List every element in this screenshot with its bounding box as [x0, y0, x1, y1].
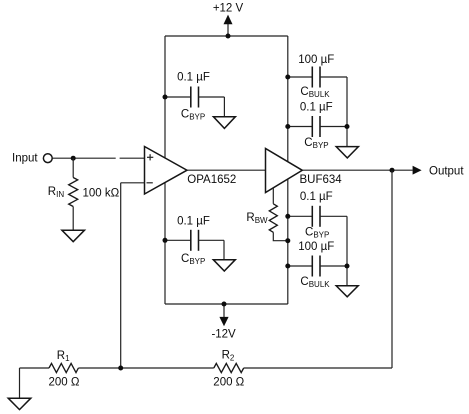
resistor R1 200 Ohm	[49, 363, 78, 372]
wire bottom feedback R2 right segment	[244, 367, 392, 369]
capacitor CBYP 0.1uF (OPA +12V bypass)	[165, 87, 224, 117]
svg-text:+12 V: +12 V	[213, 2, 244, 14]
wire top +12V rail	[165, 35, 288, 37]
svg-text:100 µF: 100 µF	[298, 241, 334, 253]
resistor RBW	[269, 188, 288, 241]
buffer U2 BUF634	[266, 149, 303, 193]
svg-text:100 µF: 100 µF	[298, 54, 334, 66]
wire OPA inverting input to feedback	[121, 182, 145, 184]
wire BUF top caps to ground	[346, 77, 348, 147]
wire OPA V+ supply vertical	[164, 36, 166, 183]
capacitor CBYP 0.1uF (OPA -12V bypass)	[165, 230, 224, 260]
node junction BUF V+ bulk tap	[285, 75, 290, 80]
ground OPA bottom bypass	[213, 260, 235, 271]
node junction BUF top ground bus	[345, 124, 350, 129]
node junction -12V tap	[222, 302, 227, 307]
svg-text:OPA1652: OPA1652	[187, 174, 236, 186]
svg-text:BUF634: BUF634	[300, 174, 343, 186]
node junction BUF V- bulk tap	[285, 264, 290, 269]
svg-text:0.1 µF: 0.1 µF	[300, 191, 333, 203]
node junction BUF V- bypass tap	[285, 214, 290, 219]
svg-text:0.1 µF: 0.1 µF	[177, 216, 210, 228]
svg-text:0.1 µF: 0.1 µF	[300, 102, 333, 114]
wire feedback vertical	[120, 183, 122, 368]
output arrow	[413, 166, 422, 175]
node junction BUF V+ bypass tap	[285, 124, 290, 129]
node junction OPA V- bypass tap	[163, 238, 168, 243]
power -12V supply arrow	[219, 304, 228, 326]
node junction +12V tap	[226, 34, 231, 39]
wire feedback from output down	[391, 170, 393, 368]
svg-text:200 Ω: 200 Ω	[49, 377, 80, 389]
ground R1	[8, 398, 31, 409]
node junction RBW to V-	[285, 238, 290, 243]
op-amp U1 OPA1652	[145, 147, 188, 195]
wire BUF output to output node	[302, 169, 412, 171]
node junction BUF bottom ground bus	[345, 264, 350, 269]
ground OPA top bypass	[213, 117, 235, 129]
wire input to junction	[52, 157, 115, 159]
node junction output	[390, 168, 395, 173]
resistor RIN 100 kOhm	[69, 158, 78, 230]
node Input terminal circle	[43, 154, 52, 163]
node junction OPA V+ bypass tap	[163, 95, 168, 100]
svg-text:-12V: -12V	[211, 329, 236, 341]
svg-text:Input: Input	[12, 153, 38, 165]
ground BUF bottom caps	[336, 286, 358, 297]
wire between R1 and R2	[78, 367, 213, 369]
capacitor CBYP 0.1uF (BUF +12V)	[288, 116, 347, 137]
wire BUF634 V- supply vertical to -12V rail	[287, 179, 289, 304]
ground RIN	[62, 230, 85, 242]
wire bottom -12V rail	[165, 303, 288, 305]
capacitor CBULK 100uF (BUF +12V)	[288, 67, 347, 88]
wire OPA output to BUF input	[187, 169, 266, 171]
wire R1 to ground	[20, 368, 50, 398]
ground BUF top caps	[336, 147, 358, 158]
node junction feedback/R1/R2	[118, 366, 123, 371]
svg-text:0.1 µF: 0.1 µF	[177, 72, 210, 84]
svg-text:100 kΩ: 100 kΩ	[83, 188, 120, 200]
power +12V supply arrow	[224, 15, 233, 36]
wire OPA V- supply vertical to -12V rail	[164, 183, 166, 305]
capacitor CBULK 100uF (BUF -12V)	[288, 256, 347, 277]
wire junction to OPA noninverting input	[120, 157, 145, 159]
svg-text:200 Ω: 200 Ω	[213, 377, 244, 389]
resistor R2 200 Ohm	[214, 363, 244, 372]
node junction input/RIN	[71, 156, 76, 161]
wire BUF634 V+ supply vertical	[287, 36, 289, 179]
capacitor CBYP 0.1uF (BUF -12V)	[288, 206, 347, 227]
svg-text:Output: Output	[429, 166, 464, 178]
wire BUF bottom caps to ground	[346, 216, 348, 285]
